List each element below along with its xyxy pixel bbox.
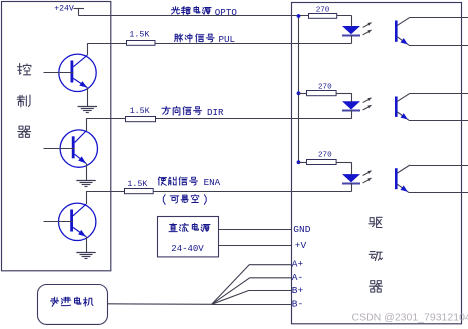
svg-text:+24V: +24V [54, 5, 74, 14]
svg-text:OPTO: OPTO [215, 7, 238, 18]
svg-text:B+: B+ [292, 285, 304, 296]
svg-text:DIR: DIR [207, 107, 224, 118]
svg-text:1.5K: 1.5K [127, 180, 147, 189]
svg-text:PUL: PUL [219, 34, 236, 45]
svg-text:A-: A- [292, 272, 303, 283]
svg-text:270: 270 [318, 84, 332, 92]
svg-text:+V: +V [295, 240, 307, 251]
svg-text:1.5K: 1.5K [129, 31, 149, 40]
svg-text:ENA: ENA [204, 177, 221, 188]
svg-text:A+: A+ [292, 258, 304, 269]
svg-text:B-: B- [292, 298, 303, 309]
svg-text:CSDN @2301_79312104: CSDN @2301_79312104 [352, 312, 468, 324]
svg-text:1.5K: 1.5K [130, 107, 150, 116]
svg-text:270: 270 [316, 7, 330, 15]
svg-text:270: 270 [318, 152, 332, 160]
svg-text:24-40V: 24-40V [171, 244, 204, 254]
svg-text:GND: GND [293, 224, 310, 235]
